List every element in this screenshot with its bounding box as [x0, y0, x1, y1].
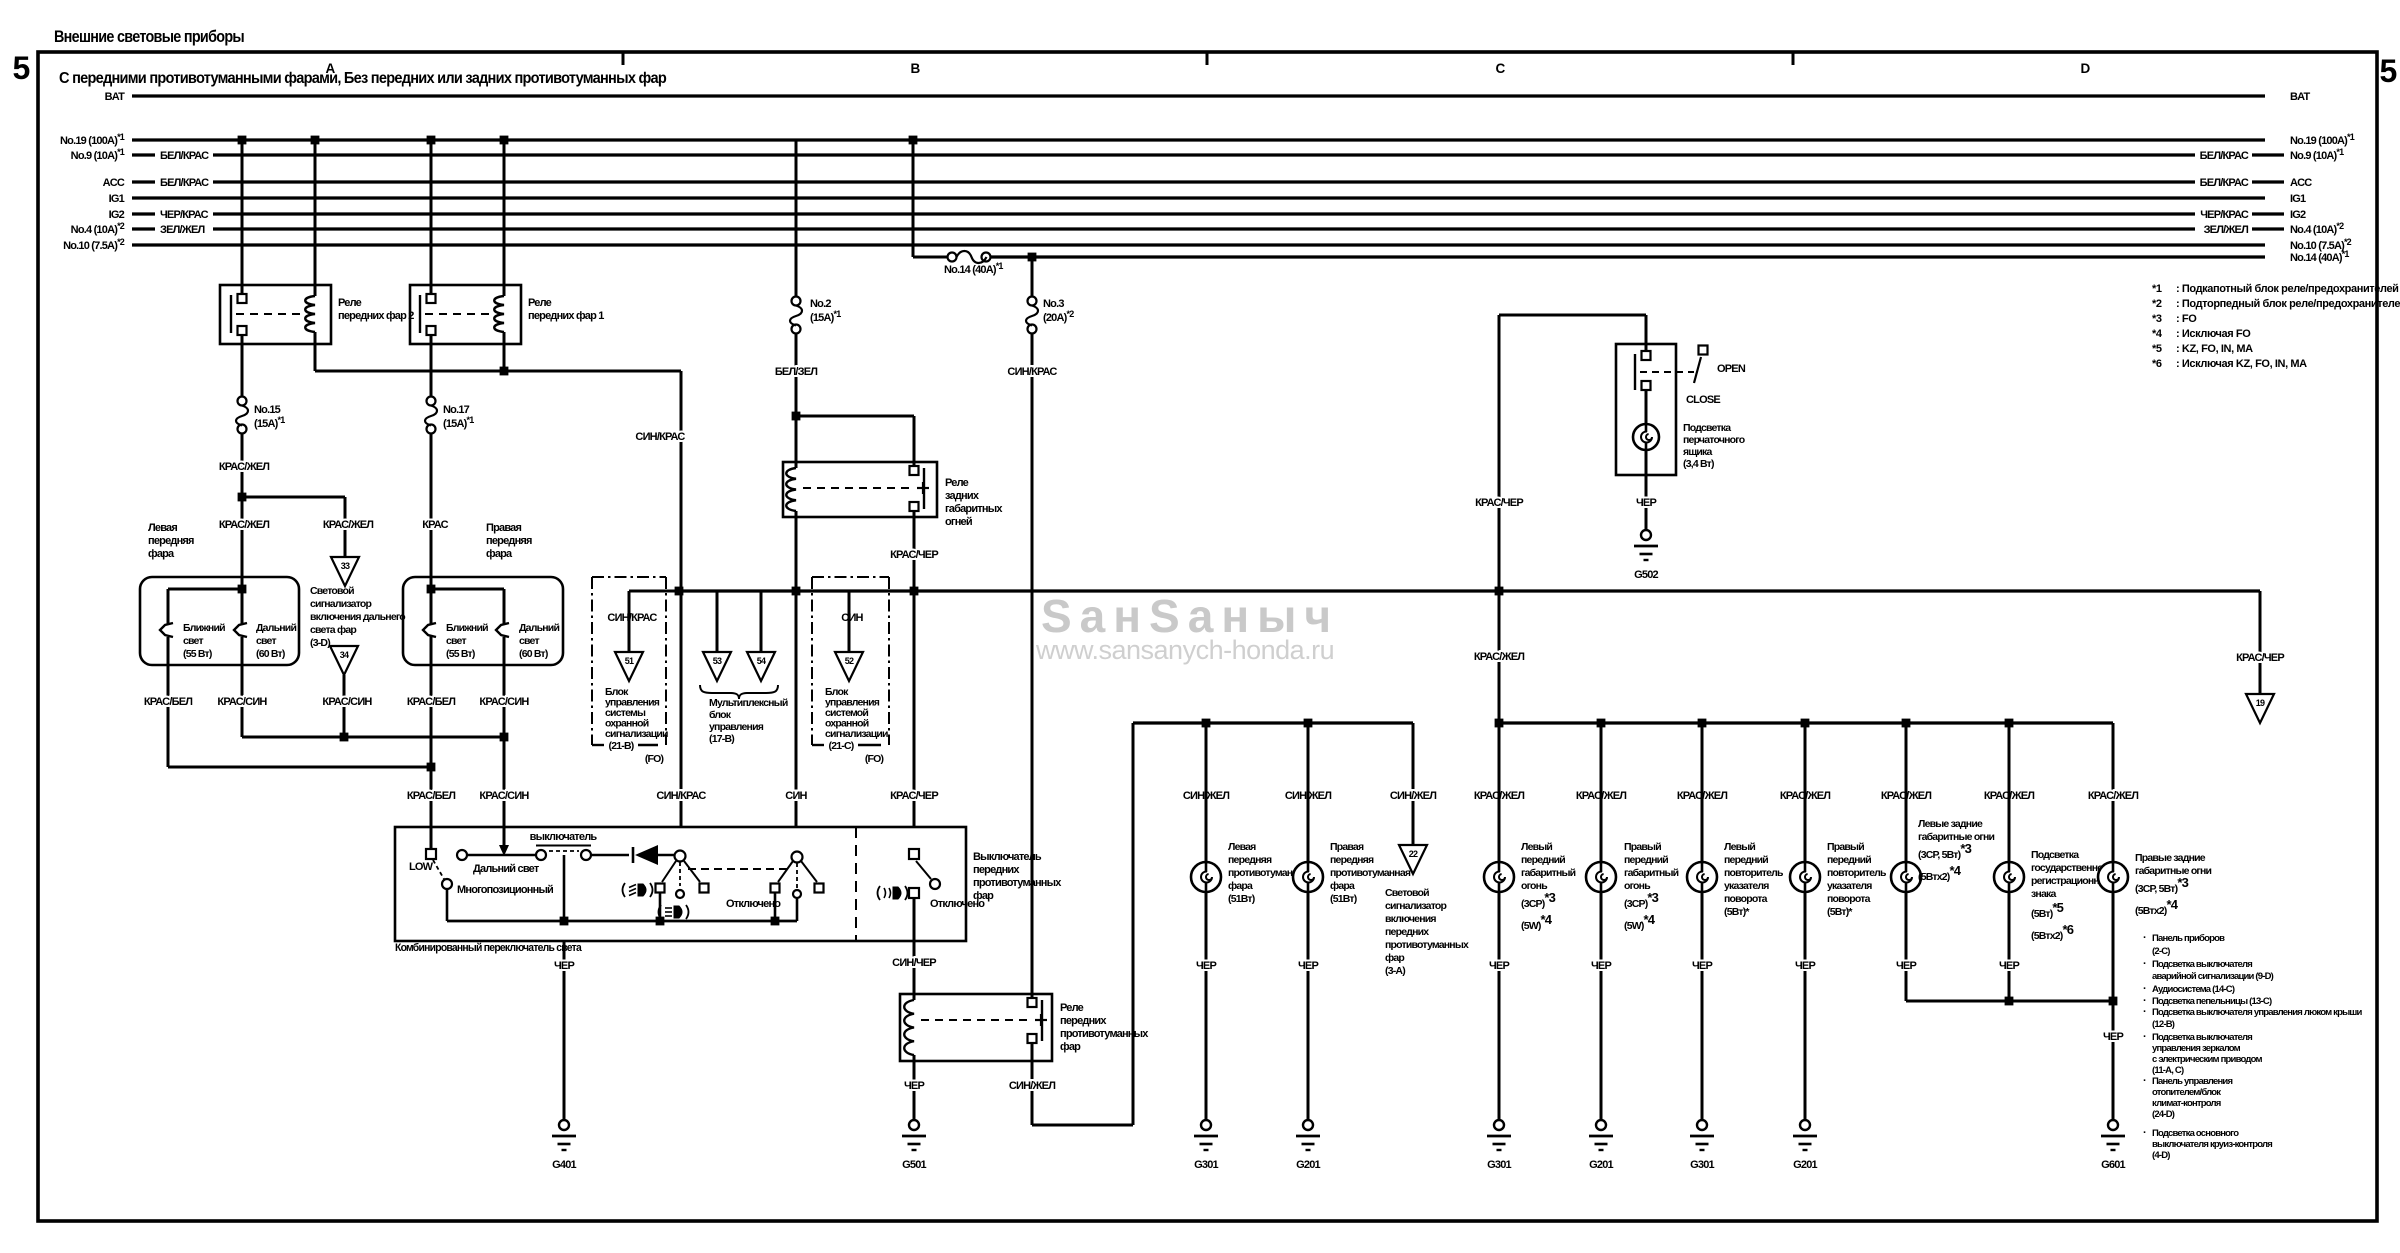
- svg-text:КРАС/ЖЕЛ: КРАС/ЖЕЛ: [2088, 790, 2138, 802]
- svg-text:свет: свет: [446, 635, 466, 647]
- svg-text:Дальний свет: Дальний свет: [473, 863, 540, 875]
- svg-text:Панель приборов: Панель приборов: [2152, 933, 2225, 944]
- svg-text:No.3: No.3: [1043, 298, 1064, 310]
- svg-text:: Исключая KZ, FO, IN, MA: : Исключая KZ, FO, IN, MA: [2176, 358, 2307, 370]
- svg-text:BAT: BAT: [2290, 91, 2310, 103]
- svg-text:·: ·: [2143, 1075, 2146, 1087]
- svg-text:сигнализатор: сигнализатор: [310, 598, 372, 610]
- svg-text:(17-B): (17-B): [709, 733, 734, 745]
- svg-text:включения: включения: [1385, 913, 1436, 925]
- svg-text:противотуманная: противотуманная: [1330, 867, 1411, 879]
- svg-text:*3: *3: [2152, 313, 2162, 325]
- svg-text:передний: передний: [1521, 854, 1565, 866]
- svg-text:КРАС/ЖЕЛ: КРАС/ЖЕЛ: [219, 461, 269, 473]
- svg-text:(5Вт)*: (5Вт)*: [1724, 906, 1750, 918]
- svg-text:Световой: Световой: [310, 585, 354, 597]
- svg-text:No.9 (10A)*1: No.9 (10A)*1: [2290, 147, 2344, 162]
- svg-text:Реле: Реле: [945, 477, 969, 489]
- svg-text:33: 33: [341, 561, 350, 571]
- svg-text:передних фар 2: передних фар 2: [338, 310, 414, 322]
- svg-text:(55 Вт): (55 Вт): [446, 648, 475, 660]
- svg-text:ЧЕР: ЧЕР: [1298, 960, 1318, 972]
- svg-text:СИН/ЧЕР: СИН/ЧЕР: [892, 957, 936, 969]
- svg-text:задних: задних: [945, 490, 980, 502]
- svg-text:Подсветка выключателя: Подсветка выключателя: [2152, 959, 2252, 970]
- svg-text:передняя: передняя: [486, 535, 532, 547]
- svg-text:КРАС/ЧЕР: КРАС/ЧЕР: [890, 549, 938, 561]
- svg-text:СИН/КРАС: СИН/КРАС: [635, 431, 685, 443]
- svg-text:управления зеркалом: управления зеркалом: [2152, 1043, 2241, 1054]
- svg-text:Ближний: Ближний: [183, 622, 225, 634]
- svg-text:ЧЕР/КРАС: ЧЕР/КРАС: [160, 209, 209, 221]
- svg-text:Правая: Правая: [1330, 841, 1364, 853]
- svg-text:IG1: IG1: [2290, 193, 2306, 205]
- svg-text:передняя: передняя: [1330, 854, 1374, 866]
- svg-text:*2: *2: [2152, 298, 2162, 310]
- svg-text:свет: свет: [256, 635, 276, 647]
- svg-text:БЕЛ/КРАС: БЕЛ/КРАС: [160, 177, 209, 189]
- svg-text:www.sansanych-honda.ru: www.sansanych-honda.ru: [1035, 635, 1334, 665]
- svg-text:No.9 (10A)*1: No.9 (10A)*1: [71, 147, 125, 162]
- svg-text:фар: фар: [1060, 1041, 1081, 1053]
- svg-text:фара: фара: [1228, 880, 1253, 892]
- svg-text:ЧЕР/КРАС: ЧЕР/КРАС: [2200, 209, 2249, 221]
- svg-text:·: ·: [2143, 1127, 2146, 1139]
- svg-text:КРАС/БЕЛ: КРАС/БЕЛ: [407, 790, 455, 802]
- svg-text:22: 22: [1409, 849, 1418, 859]
- svg-text:IG1: IG1: [109, 193, 125, 205]
- svg-text:климат-контроля: климат-контроля: [2152, 1098, 2221, 1109]
- svg-text:света фар: света фар: [310, 624, 356, 636]
- svg-text:управления: управления: [709, 721, 764, 733]
- svg-text:КРАС/СИН: КРАС/СИН: [322, 696, 372, 708]
- svg-text:Дальний: Дальний: [519, 622, 559, 634]
- svg-text:(21-B): (21-B): [609, 740, 634, 752]
- svg-text:с электрическим приводом: с электрическим приводом: [2152, 1054, 2262, 1065]
- svg-text:Подсветка основного: Подсветка основного: [2152, 1128, 2239, 1139]
- svg-text:(3-D): (3-D): [310, 637, 330, 649]
- svg-text:ящика: ящика: [1683, 446, 1712, 458]
- svg-text:КРАС/ЖЕЛ: КРАС/ЖЕЛ: [1474, 651, 1524, 663]
- svg-text:B: B: [911, 61, 921, 76]
- svg-text:G502: G502: [1634, 569, 1658, 581]
- svg-text:BAT: BAT: [105, 91, 125, 103]
- svg-text:передних: передних: [973, 864, 1020, 876]
- svg-text:КРАС/СИН: КРАС/СИН: [479, 790, 529, 802]
- svg-text:КРАС: КРАС: [422, 519, 448, 531]
- svg-text:51: 51: [625, 656, 634, 666]
- svg-text:Панель управления: Панель управления: [2152, 1076, 2232, 1087]
- svg-text:G201: G201: [1296, 1159, 1320, 1171]
- svg-text:34: 34: [340, 650, 349, 660]
- svg-text:передних: передних: [1385, 926, 1429, 938]
- svg-text:СИН: СИН: [785, 790, 807, 802]
- svg-text:СИН/КРАС: СИН/КРАС: [1007, 366, 1057, 378]
- svg-text:включения дальнего: включения дальнего: [310, 611, 405, 623]
- svg-text:52: 52: [845, 656, 854, 666]
- svg-text:выключателя круиз-контроля: выключателя круиз-контроля: [2152, 1139, 2272, 1150]
- svg-text:Аудиосистема (14-C): Аудиосистема (14-C): [2152, 984, 2235, 995]
- svg-text:No.2: No.2: [810, 298, 831, 310]
- svg-text:сигнализации: сигнализации: [605, 728, 668, 740]
- svg-text:Подсветка пепельницы (13-C): Подсветка пепельницы (13-C): [2152, 996, 2272, 1007]
- svg-text:: Подкапотный блок реле/предох: : Подкапотный блок реле/предохранителей: [2176, 283, 2399, 295]
- svg-text:фара: фара: [486, 548, 513, 560]
- svg-text:(60 Вт): (60 Вт): [256, 648, 285, 660]
- svg-text:53: 53: [713, 656, 722, 666]
- svg-text:повторитель: повторитель: [1724, 867, 1784, 879]
- svg-text:СИН/ЖЕЛ: СИН/ЖЕЛ: [1009, 1080, 1055, 1092]
- svg-text:Внешние световые приборы: Внешние световые приборы: [54, 28, 244, 46]
- svg-text:передняя: передняя: [1228, 854, 1272, 866]
- svg-text:КРАС/ЧЕР: КРАС/ЧЕР: [1475, 497, 1523, 509]
- svg-text:*1: *1: [2152, 283, 2162, 295]
- svg-text:(24-D): (24-D): [2152, 1109, 2175, 1120]
- svg-text:No.14 (40A)*1: No.14 (40A)*1: [2290, 249, 2349, 264]
- svg-text:·: ·: [2143, 932, 2146, 944]
- svg-text:G501: G501: [902, 1159, 926, 1171]
- svg-text:Реле: Реле: [1060, 1002, 1084, 1014]
- svg-text:Подсветка выключателя: Подсветка выключателя: [2152, 1032, 2252, 1043]
- svg-text:No.19 (100A)*1: No.19 (100A)*1: [2290, 132, 2355, 147]
- svg-text:фара: фара: [148, 548, 175, 560]
- svg-text:КРАС/БЕЛ: КРАС/БЕЛ: [407, 696, 455, 708]
- svg-text:габаритные огни: габаритные огни: [1918, 831, 1995, 843]
- svg-text:КРАС/БЕЛ: КРАС/БЕЛ: [144, 696, 192, 708]
- svg-text:: Исключая FO: : Исключая FO: [2176, 328, 2251, 340]
- svg-text:ЧЕР: ЧЕР: [554, 960, 574, 972]
- svg-text:(4-D): (4-D): [2152, 1150, 2170, 1161]
- svg-text:ЧЕР: ЧЕР: [2103, 1031, 2123, 1043]
- svg-text:No.14 (40A)*1: No.14 (40A)*1: [944, 261, 1003, 276]
- svg-text:(FO): (FO): [645, 753, 664, 765]
- svg-text:No.4 (10A)*2: No.4 (10A)*2: [2290, 221, 2344, 236]
- svg-text:(55 Вт): (55 Вт): [183, 648, 212, 660]
- svg-text:фар: фар: [973, 890, 994, 902]
- svg-text:передний: передний: [1724, 854, 1768, 866]
- svg-text:габаритный: габаритный: [1624, 867, 1679, 879]
- svg-text:поворота: поворота: [1724, 893, 1768, 905]
- svg-text:КРАС/ЖЕЛ: КРАС/ЖЕЛ: [323, 519, 373, 531]
- svg-text:·: ·: [2143, 1031, 2146, 1043]
- svg-text:G401: G401: [552, 1159, 576, 1171]
- svg-text:БЕЛ/КРАС: БЕЛ/КРАС: [2200, 177, 2249, 189]
- svg-text:СИН/ЖЕЛ: СИН/ЖЕЛ: [1390, 790, 1436, 802]
- svg-text:G201: G201: [1589, 1159, 1613, 1171]
- svg-text:54: 54: [757, 656, 766, 666]
- svg-text:5: 5: [13, 50, 30, 86]
- svg-text:Реле: Реле: [528, 297, 552, 309]
- svg-text:*4: *4: [2152, 328, 2163, 340]
- svg-text:·: ·: [2143, 983, 2146, 995]
- svg-text:КРАС/СИН: КРАС/СИН: [479, 696, 529, 708]
- svg-text:КРАС/СИН: КРАС/СИН: [217, 696, 267, 708]
- svg-text:указателя: указателя: [1827, 880, 1872, 892]
- svg-text:противотуманных: противотуманных: [973, 877, 1062, 889]
- svg-text:выключатель: выключатель: [530, 831, 598, 843]
- svg-text:передних фар 1: передних фар 1: [528, 310, 604, 322]
- svg-text:отопителем/блок: отопителем/блок: [2152, 1087, 2221, 1098]
- svg-text:габаритных: габаритных: [945, 503, 1003, 515]
- svg-text:КРАС/ЧЕР: КРАС/ЧЕР: [890, 790, 938, 802]
- svg-text:сигнализатор: сигнализатор: [1385, 900, 1447, 912]
- svg-text:·: ·: [2143, 958, 2146, 970]
- svg-text:Световой: Световой: [1385, 887, 1429, 899]
- svg-text:G301: G301: [1690, 1159, 1714, 1171]
- svg-text:(60 Вт): (60 Вт): [519, 648, 548, 660]
- svg-text:No.4 (10A)*2: No.4 (10A)*2: [71, 221, 125, 236]
- svg-text:G301: G301: [1194, 1159, 1218, 1171]
- svg-text:Правый: Правый: [1624, 841, 1661, 853]
- svg-text:(5Вт)*: (5Вт)*: [1827, 906, 1853, 918]
- svg-text:противотуманных: противотуманных: [1060, 1028, 1149, 1040]
- svg-text:(11-A, C): (11-A, C): [2152, 1065, 2184, 1076]
- svg-text:Отключено: Отключено: [726, 898, 781, 910]
- svg-text:Левые задние: Левые задние: [1918, 818, 1983, 830]
- svg-text:Дальний: Дальний: [256, 622, 296, 634]
- svg-text:противотуманных: противотуманных: [1385, 939, 1469, 951]
- svg-text:ACC: ACC: [2290, 177, 2312, 189]
- svg-text:перчаточного: перчаточного: [1683, 434, 1745, 446]
- svg-text:No.19 (100A)*1: No.19 (100A)*1: [60, 132, 125, 147]
- svg-text:КРАС/ЖЕЛ: КРАС/ЖЕЛ: [219, 519, 269, 531]
- svg-text:(12-B): (12-B): [2152, 1019, 2175, 1030]
- svg-text:5: 5: [2380, 53, 2397, 89]
- svg-text:·: ·: [2143, 1006, 2146, 1018]
- svg-text:габаритные огни: габаритные огни: [2135, 865, 2212, 877]
- svg-text:БЕЛ/КРАС: БЕЛ/КРАС: [160, 150, 209, 162]
- svg-text:(3,4 Вт): (3,4 Вт): [1683, 458, 1714, 470]
- svg-text:знака: знака: [2031, 888, 2056, 900]
- svg-text:передняя: передняя: [148, 535, 194, 547]
- svg-text:фар: фар: [1385, 952, 1404, 964]
- svg-text:СИН: СИН: [841, 612, 863, 624]
- svg-text:блок: блок: [709, 709, 732, 721]
- svg-text:OPEN: OPEN: [1717, 363, 1746, 375]
- svg-text:Левый: Левый: [1724, 841, 1755, 853]
- svg-text:IG2: IG2: [2290, 209, 2306, 221]
- svg-text:сигнализации: сигнализации: [825, 728, 888, 740]
- svg-text:Левая: Левая: [148, 522, 177, 534]
- svg-text:повторитель: повторитель: [1827, 867, 1887, 879]
- svg-text:Многопозиционный: Многопозиционный: [457, 884, 553, 896]
- svg-text:: Подторпедный блок реле/предо: : Подторпедный блок реле/предохранителей: [2176, 298, 2400, 310]
- svg-text:(3-A): (3-A): [1385, 965, 1405, 977]
- svg-text:ЧЕР: ЧЕР: [1896, 960, 1916, 972]
- svg-text:No.10 (7.5A)*2: No.10 (7.5A)*2: [63, 237, 125, 252]
- svg-text:ЧЕР: ЧЕР: [1636, 497, 1656, 509]
- svg-text:LOW: LOW: [409, 861, 434, 873]
- svg-text:(51Вт): (51Вт): [1228, 893, 1255, 905]
- svg-text:ЗЕЛ/ЖЕЛ: ЗЕЛ/ЖЕЛ: [160, 224, 204, 236]
- svg-text:G601: G601: [2101, 1159, 2125, 1171]
- svg-text:Мультиплексный: Мультиплексный: [709, 697, 788, 709]
- svg-text:габаритный: габаритный: [1521, 867, 1576, 879]
- svg-text:ЧЕР: ЧЕР: [1999, 960, 2019, 972]
- svg-text:IG2: IG2: [109, 209, 125, 221]
- svg-text:Подсветка: Подсветка: [1683, 422, 1731, 434]
- svg-text:ЧЕР: ЧЕР: [1795, 960, 1815, 972]
- svg-text:аварийной сигнализации (9-D): аварийной сигнализации (9-D): [2152, 971, 2274, 982]
- svg-text:Комбинированный переключатель: Комбинированный переключатель света: [395, 942, 583, 954]
- svg-text:БЕЛ/КРАС: БЕЛ/КРАС: [2200, 150, 2249, 162]
- svg-text:G201: G201: [1793, 1159, 1817, 1171]
- svg-text:ЧЕР: ЧЕР: [1196, 960, 1216, 972]
- svg-text:Правая: Правая: [486, 522, 521, 534]
- svg-text:передний: передний: [1624, 854, 1668, 866]
- svg-text:(51Вт): (51Вт): [1330, 893, 1357, 905]
- svg-text:огней: огней: [945, 516, 972, 528]
- svg-text:ЧЕР: ЧЕР: [1692, 960, 1712, 972]
- svg-text:(FO): (FO): [865, 753, 884, 765]
- svg-text:указателя: указателя: [1724, 880, 1769, 892]
- svg-text:Подсветка: Подсветка: [2031, 849, 2079, 861]
- svg-text:ЧЕР: ЧЕР: [1489, 960, 1509, 972]
- svg-text:С передними противотуманными ф: С передними противотуманными фарами, Без…: [59, 70, 666, 87]
- svg-text:ЧЕР: ЧЕР: [1591, 960, 1611, 972]
- svg-text:Левый: Левый: [1521, 841, 1552, 853]
- svg-text:*5: *5: [2152, 343, 2162, 355]
- svg-text:фара: фара: [1330, 880, 1355, 892]
- svg-text:передний: передний: [1827, 854, 1871, 866]
- svg-text:CLOSE: CLOSE: [1686, 394, 1720, 406]
- svg-text:C: C: [1496, 61, 1506, 76]
- svg-text:Правые задние: Правые задние: [2135, 852, 2206, 864]
- svg-text:Реле: Реле: [338, 297, 362, 309]
- svg-text:СИН/КРАС: СИН/КРАС: [607, 612, 657, 624]
- svg-text:ЗЕЛ/ЖЕЛ: ЗЕЛ/ЖЕЛ: [2204, 224, 2248, 236]
- svg-text:свет: свет: [519, 635, 539, 647]
- svg-text:БЕЛ/ЗЕЛ: БЕЛ/ЗЕЛ: [775, 366, 817, 378]
- svg-text:Левая: Левая: [1228, 841, 1256, 853]
- svg-text:: FO: : FO: [2176, 313, 2197, 325]
- svg-text:(21-C): (21-C): [829, 740, 854, 752]
- svg-text:свет: свет: [183, 635, 203, 647]
- svg-text:Ближний: Ближний: [446, 622, 488, 634]
- svg-text:КРАС/ЧЕР: КРАС/ЧЕР: [2236, 652, 2284, 664]
- svg-text:ACC: ACC: [103, 177, 125, 189]
- svg-text:D: D: [2081, 61, 2091, 76]
- svg-text:Выключатель: Выключатель: [973, 851, 1042, 863]
- svg-text:передних: передних: [1060, 1015, 1107, 1027]
- svg-text:Правый: Правый: [1827, 841, 1864, 853]
- svg-text:ЧЕР: ЧЕР: [904, 1080, 924, 1092]
- svg-text:: KZ, FO, IN, MA: : KZ, FO, IN, MA: [2176, 343, 2253, 355]
- svg-text:(2-C): (2-C): [2152, 946, 2170, 957]
- svg-text:Подсветка выключателя управлен: Подсветка выключателя управления люком к…: [2152, 1007, 2363, 1018]
- svg-text:G301: G301: [1487, 1159, 1511, 1171]
- svg-text:поворота: поворота: [1827, 893, 1871, 905]
- svg-text:*6: *6: [2152, 358, 2162, 370]
- svg-text:19: 19: [2256, 698, 2265, 708]
- svg-text:СИН/КРАС: СИН/КРАС: [656, 790, 706, 802]
